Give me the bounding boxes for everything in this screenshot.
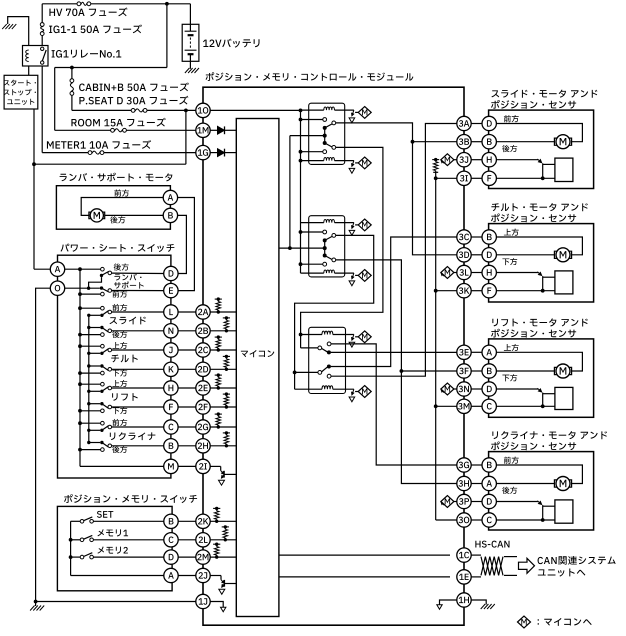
wire 3D to sensor xyxy=(471,254,482,256)
relay RL2 (tilt) switch 1 xyxy=(299,230,303,234)
wire micom to 1C xyxy=(279,554,450,556)
connector D (seat switch) xyxy=(164,266,178,280)
wire RL1 out1 to 3B/3D xyxy=(336,123,457,255)
connector 3O xyxy=(457,513,471,527)
relay RL2 (tilt) common xyxy=(323,246,327,250)
connector 2M xyxy=(196,550,210,564)
diode (1M) xyxy=(210,129,217,131)
connector E (seat switch) xyxy=(164,283,178,297)
wire RL2 out1 to RL3 pivots xyxy=(295,235,374,389)
wire lumbar A to motor xyxy=(81,198,163,216)
connector O (seat switch) xyxy=(50,281,64,295)
switch lumbar front xyxy=(65,287,100,289)
connector 1E xyxy=(457,570,471,584)
junction battery feed to module xyxy=(184,109,188,113)
relay IG1 switch xyxy=(41,47,44,50)
sensor return bus xyxy=(435,178,437,520)
relay RL3 switch 2 xyxy=(327,365,331,369)
wire 2L to memory switch xyxy=(178,539,196,541)
relay block RL3 (reversing) xyxy=(309,327,346,393)
tilt motor and position sensor box xyxy=(489,224,594,302)
connector 1H xyxy=(457,593,471,607)
switch lumbar back xyxy=(78,267,82,271)
connector 2F xyxy=(196,400,210,414)
relay RL1 (slide) common xyxy=(323,134,327,138)
relay RL1 (slide) coil 1 xyxy=(301,109,324,111)
connector 3I xyxy=(457,171,471,185)
connector H (seat switch) xyxy=(164,381,178,395)
switch lift 下方 xyxy=(78,409,82,413)
connector 3J xyxy=(457,153,471,167)
HS-CAN twisted pair xyxy=(475,541,480,548)
wire lift motor and position sensor row2 to motor xyxy=(496,370,554,372)
wire 1H to signal ground xyxy=(440,600,458,605)
connector 2E xyxy=(196,381,210,395)
connector 2A xyxy=(196,305,210,319)
connector C (recliner motor and position sensor) xyxy=(482,513,496,527)
connector A (seat switch) xyxy=(50,262,64,276)
resistor (pull-up) at 2L xyxy=(222,526,229,528)
power seat switch box xyxy=(58,255,171,478)
connector A (memory switch) xyxy=(164,568,178,582)
switch slide 後方 xyxy=(78,333,82,337)
resistor (pull-up) at 2E xyxy=(215,374,222,376)
position sensor (lift motor and position sensor) xyxy=(555,387,573,409)
wire common to M xyxy=(80,465,164,467)
diamond to micom (3L) xyxy=(441,273,444,276)
connector 3M xyxy=(457,399,471,413)
motor M (tilt motor and position sensor) xyxy=(556,248,570,262)
connector 2D xyxy=(196,362,210,376)
wire tilt motor and position sensor row2 to motor xyxy=(496,254,554,256)
connector F (tilt motor and position sensor) xyxy=(482,284,496,298)
wire battery feed down-left xyxy=(166,4,168,68)
connector 3C xyxy=(457,230,471,244)
diamond to micom (3N) xyxy=(441,390,444,393)
resistor (pull-up) at 2H xyxy=(223,432,230,434)
connector 1G xyxy=(196,145,210,159)
position sensor (slide motor and position sensor) xyxy=(555,158,573,181)
connector D (lift motor and position sensor) xyxy=(482,382,496,396)
connector K (seat switch) xyxy=(164,362,178,376)
connector B (slide motor and position sensor) xyxy=(482,135,496,149)
connector 2L xyxy=(196,533,210,547)
connector 1C xyxy=(457,548,471,562)
wire 2H to micom xyxy=(210,445,236,447)
diamond to micom (3P) xyxy=(441,502,444,505)
transistor switch to ground at 2J xyxy=(220,576,222,580)
pivot bus (seat switch) xyxy=(88,315,90,442)
connector 3B xyxy=(457,135,471,149)
fuse CABIN+B 50A xyxy=(70,66,74,70)
arrow to CAN system units xyxy=(519,558,535,573)
connector 3H xyxy=(457,476,471,490)
connector 2K xyxy=(196,514,210,528)
connector 3F xyxy=(457,364,471,378)
connector A (lift motor and position sensor) xyxy=(482,345,496,359)
label リフト xyxy=(112,393,117,401)
relay block RL2 (tilt) xyxy=(309,216,345,277)
connector D (memory switch) xyxy=(164,550,178,564)
wire recliner motor and position sensor row2 to motor xyxy=(496,483,554,485)
wire 2E to seat switch xyxy=(178,387,196,389)
resistor (pull-up) at 2A xyxy=(215,298,222,300)
wire lumbar A to seat switch E xyxy=(177,198,194,291)
ground (1H) xyxy=(471,600,486,605)
label スライド xyxy=(110,317,118,324)
switch tilt 下方 xyxy=(78,371,82,375)
wire RL2 out2 to 3F/3H xyxy=(336,260,457,484)
connector 1J xyxy=(196,594,210,608)
wire 2G to micom xyxy=(210,426,236,428)
start-stop unit box xyxy=(4,75,38,109)
lumbar support motor box xyxy=(56,186,170,230)
connector 2H xyxy=(196,439,210,453)
wire 3H to sensor xyxy=(471,483,482,485)
wire 3A to sensor xyxy=(471,123,482,125)
resistor (sensor divider) xyxy=(432,159,439,161)
wire 2D to micom xyxy=(210,368,236,370)
wire 2F to micom xyxy=(210,406,236,408)
wire 3K to sensor xyxy=(471,290,482,292)
wire 3G to sensor xyxy=(471,464,482,466)
relay IG1 No.1 xyxy=(23,46,49,67)
switch memory2 xyxy=(69,555,73,559)
wire 1O to relay bus xyxy=(210,109,301,111)
wire 3C to sensor xyxy=(471,236,482,238)
switch lift 上方 xyxy=(78,382,82,386)
resistor (pull-up) at 2G xyxy=(215,413,222,415)
wire 2M to memory switch xyxy=(178,556,196,558)
connector B (seat switch) xyxy=(164,439,178,453)
relay RL2 (tilt) switch 2 xyxy=(323,254,327,258)
resistor (pull-up) at 2M xyxy=(213,543,220,545)
battery 12V xyxy=(165,2,169,6)
wire 2K to micom xyxy=(210,520,236,522)
connector 2G xyxy=(196,420,210,434)
wire 3F to sensor xyxy=(471,370,482,372)
connector 3D xyxy=(457,248,471,262)
ground (top left) xyxy=(8,17,29,46)
connector 3A xyxy=(457,116,471,130)
relay feed bus from 1O xyxy=(300,110,302,273)
switch slide 前方 xyxy=(78,306,82,310)
wire 1J to ground triangle xyxy=(210,602,223,608)
connector M (seat switch) xyxy=(164,459,178,473)
connector F (seat switch) xyxy=(164,400,178,414)
switch tilt 上方 xyxy=(78,344,82,348)
wire feed to seat switch xyxy=(185,110,187,164)
diamond to micom (3J) xyxy=(441,160,444,163)
motor M (lumbar) xyxy=(90,209,103,222)
connector L (seat switch) xyxy=(164,305,178,319)
relay RL2 (tilt) coil 2 xyxy=(301,272,324,274)
wire 3P to sensor xyxy=(471,501,482,503)
connector D (recliner motor and position sensor) xyxy=(482,494,496,508)
resistor (pull-up) at 2C xyxy=(215,336,222,338)
switch SET xyxy=(71,520,81,522)
relay RL1 (slide) switch 1 xyxy=(299,118,303,122)
wire 3N to sensor xyxy=(471,388,482,390)
wire 3O to sensor xyxy=(471,519,482,521)
resistor (pull-up) at 2B xyxy=(223,317,230,319)
wire 2C to micom xyxy=(210,349,236,351)
connector C (lift motor and position sensor) xyxy=(482,399,496,413)
connector 2C xyxy=(196,343,210,357)
wire 3M to sensor xyxy=(471,405,482,407)
wire lift motor and position sensor row1 to motor xyxy=(496,352,582,371)
fuse METER1 10A xyxy=(41,66,43,153)
connector D (slide motor and position sensor) xyxy=(482,116,496,130)
connector 1M xyxy=(196,123,210,137)
wire 2F to seat switch xyxy=(178,406,196,408)
wire 3A feed from RL3 C2 xyxy=(331,124,457,377)
wire 1O feed xyxy=(196,103,210,117)
connector 3G xyxy=(457,458,471,472)
wire tilt motor and position sensor row1 to motor xyxy=(496,237,582,255)
feed bus (seat switch) xyxy=(79,269,81,466)
motor M (recliner motor and position sensor) xyxy=(556,477,570,491)
wire 3J to sensor xyxy=(471,159,482,161)
position sensor (recliner motor and position sensor) xyxy=(555,500,573,523)
connector 3E xyxy=(457,345,471,359)
connector H (slide motor and position sensor) xyxy=(482,153,496,167)
memory switch bus xyxy=(70,521,72,575)
wire memory common to A xyxy=(71,575,164,577)
connector 2I xyxy=(196,459,210,473)
wire 2H to seat switch xyxy=(178,445,196,447)
fuse ROOM 15A xyxy=(54,68,56,131)
connector B (memory switch) xyxy=(164,514,178,528)
wire A feed xyxy=(34,268,51,270)
wire RL3 D2 to 3C xyxy=(331,237,457,367)
switch recliner 後方 xyxy=(78,448,82,452)
lift motor and position sensor box xyxy=(489,339,594,417)
wire lumbar B to seat switch D xyxy=(177,215,186,273)
wire RL3 C1 to 3G xyxy=(331,344,457,465)
wire recliner motor and position sensor row1 to motor xyxy=(496,465,582,484)
wire unit bottom to feed corner xyxy=(33,109,35,164)
wire O return to left rail xyxy=(36,288,51,601)
connector 2J xyxy=(196,568,210,582)
wire 2D to seat switch xyxy=(178,368,196,370)
wire 2B to micom xyxy=(210,330,236,332)
connector C (seat switch) xyxy=(164,420,178,434)
wire micom to relay commons xyxy=(279,247,325,249)
connector B (recliner motor and position sensor) xyxy=(482,458,496,472)
wire 3B to sensor xyxy=(471,141,482,143)
relay RL3 switch 1 xyxy=(318,346,322,350)
motor M (slide motor and position sensor) xyxy=(556,135,570,149)
connector 3K xyxy=(457,284,471,298)
wire 2A to seat switch xyxy=(178,311,196,313)
diode (1G) xyxy=(210,152,217,154)
label チルト xyxy=(111,355,119,363)
wire 2G to seat switch xyxy=(178,426,196,428)
wire RL1 out2 to RL3 bus xyxy=(301,147,383,348)
relay RL3 coil 2 xyxy=(295,388,322,390)
connector H (tilt motor and position sensor) xyxy=(482,265,496,279)
wire 3L to sensor xyxy=(471,272,482,274)
relay RL2 (tilt) coil 1 xyxy=(301,222,324,224)
motor M (lift motor and position sensor) xyxy=(556,364,570,378)
wire 3I to sensor xyxy=(471,177,482,179)
connector 3L xyxy=(457,265,471,279)
switch recliner 前方 xyxy=(78,421,82,425)
relay RL1 (slide) switch 2 xyxy=(323,141,327,145)
connector A (lumbar) xyxy=(163,190,177,204)
relay RL1 (slide) coil 2 xyxy=(301,160,324,162)
connector J (seat switch) xyxy=(164,343,178,357)
label リクライナ xyxy=(110,433,115,441)
transistor switch to ground at 2I xyxy=(220,466,222,470)
wire slide motor and position sensor row2 to motor xyxy=(496,141,554,143)
fuse IG1-1 50A xyxy=(41,4,43,23)
connector A (recliner motor and position sensor) xyxy=(482,476,496,490)
connector 3N xyxy=(457,382,471,396)
switch memory1 xyxy=(69,538,73,542)
wire 2A to micom xyxy=(210,311,236,313)
resistor (pull-up) at 2K xyxy=(213,507,220,509)
connector B (tilt motor and position sensor) xyxy=(482,230,496,244)
wire micom to 1E xyxy=(279,576,450,578)
ground (battery) xyxy=(189,61,191,69)
connector B (lift motor and position sensor) xyxy=(482,364,496,378)
recliner motor and position sensor box xyxy=(489,452,594,530)
position sensor (tilt motor and position sensor) xyxy=(555,271,573,294)
slide motor and position sensor box xyxy=(489,110,594,188)
connector 3P xyxy=(457,494,471,508)
connector N (seat switch) xyxy=(164,324,178,338)
wire 2M to micom xyxy=(210,556,236,558)
wire 2E to micom xyxy=(210,387,236,389)
wire slide motor and position sensor row1 to motor xyxy=(496,124,582,142)
wire relay coil to unit xyxy=(28,66,30,75)
relay RL3 coil 1 xyxy=(299,333,303,337)
resistor (pull-up) at 2F xyxy=(223,393,230,395)
fuse P.SEAT D 30A xyxy=(72,109,131,111)
wire 2C to seat switch xyxy=(178,349,196,351)
microcomputer box xyxy=(236,119,279,617)
wire 2K to memory switch xyxy=(178,520,196,522)
legend diamond M = to microcomputer xyxy=(518,616,531,628)
wire RL3 D1 to 3E xyxy=(331,351,457,353)
connector F (slide motor and position sensor) xyxy=(482,171,496,185)
relay block RL1 (slide) xyxy=(309,103,345,164)
wire ground rail to 1J xyxy=(36,601,196,603)
position memory switch box xyxy=(57,506,172,590)
ground (bottom left) xyxy=(34,600,38,604)
wire 2B to seat switch xyxy=(178,330,196,332)
resistor (pull-up) at 2D xyxy=(223,355,230,357)
wire 3E to sensor xyxy=(471,351,482,353)
connector 2B xyxy=(196,324,210,338)
wire lumbar motor to B xyxy=(105,214,164,216)
position memory control module box xyxy=(203,87,464,625)
wire 2L to micom xyxy=(210,539,236,541)
connector C (memory switch) xyxy=(164,533,178,547)
fuse HV 70A xyxy=(42,3,77,5)
connector D (tilt motor and position sensor) xyxy=(482,248,496,262)
relay common bus xyxy=(289,136,291,249)
connector B (lumbar) xyxy=(163,208,177,222)
